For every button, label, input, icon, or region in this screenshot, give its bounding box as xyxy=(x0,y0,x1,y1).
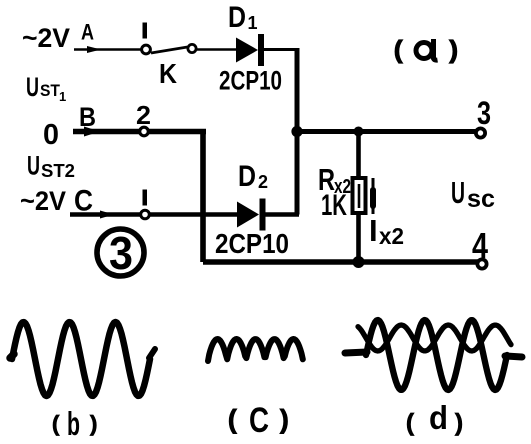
waveform d small wave xyxy=(358,325,511,351)
resistor inner wire mark xyxy=(358,184,361,208)
wire A row from source to switch xyxy=(74,48,141,51)
svg-text:U: U xyxy=(27,151,40,181)
arrow on wire C xyxy=(100,211,114,219)
svg-text:d: d xyxy=(429,399,448,436)
diode D2 triangle xyxy=(237,202,259,228)
wire resistor top lead xyxy=(356,132,361,180)
svg-text:C: C xyxy=(249,401,269,440)
svg-text:ST2: ST2 xyxy=(41,161,75,181)
switch K blade xyxy=(151,47,188,53)
arrow on wire B xyxy=(84,127,100,137)
switch K left contact circle xyxy=(142,45,151,54)
svg-text:3: 3 xyxy=(109,227,133,279)
svg-text:2CP10: 2CP10 xyxy=(215,228,289,259)
wire D1 cathode to corner xyxy=(264,48,297,51)
waveform b end tick xyxy=(149,349,155,358)
pin 1 tick above C node xyxy=(143,190,148,206)
diode D2 cathode bar xyxy=(260,199,266,231)
waveform c rectified humps xyxy=(208,339,303,361)
wire resistor bottom lead xyxy=(356,213,361,262)
svg-text:~2V: ~2V xyxy=(22,23,70,53)
svg-text:): ) xyxy=(90,411,97,436)
junction dot D1-output on rail 3 xyxy=(291,126,302,137)
junction dot resistor top xyxy=(354,127,364,137)
svg-text:U: U xyxy=(26,72,39,102)
junction dot resistor bottom xyxy=(353,256,365,268)
wire B row xyxy=(73,129,206,135)
figure number circled 3 xyxy=(97,229,144,276)
current Ix2 direction line xyxy=(372,178,375,214)
diode D1 cathode bar xyxy=(258,34,264,66)
svg-text:A: A xyxy=(81,20,94,45)
wire switch to diode D1 xyxy=(197,48,236,51)
terminal 4 circle xyxy=(477,259,486,268)
svg-text:x2: x2 xyxy=(379,223,404,249)
node 2 circle xyxy=(140,127,149,136)
svg-text:3: 3 xyxy=(477,95,491,131)
waveform d lead-in xyxy=(345,352,367,353)
label (a) letter a stem xyxy=(434,39,438,60)
svg-text:(: ( xyxy=(228,404,237,434)
switch K right contact circle xyxy=(188,44,196,52)
label (a) letter a bowl xyxy=(416,43,432,59)
svg-text:0: 0 xyxy=(43,119,59,151)
svg-text:): ) xyxy=(280,404,289,434)
svg-text:U: U xyxy=(451,175,465,210)
waveform b start blob xyxy=(10,354,14,358)
svg-text:b: b xyxy=(67,405,80,442)
waveform d big wave xyxy=(366,320,507,390)
current Ix2 arrowhead xyxy=(370,190,376,206)
wire D2 cathode to vertical xyxy=(266,212,300,216)
svg-text:(: ( xyxy=(406,410,414,437)
wire vertical from B down to bottom rail xyxy=(200,129,206,262)
svg-text:B: B xyxy=(79,102,96,132)
wire C row to diode D2 xyxy=(70,212,237,216)
svg-text:1: 1 xyxy=(248,13,258,33)
arrow on wire A xyxy=(87,46,101,53)
pin 1 tick above switch contact xyxy=(143,23,148,39)
bottom rail wire to terminal 4 xyxy=(203,259,479,265)
node 1 circle on C row xyxy=(141,210,150,219)
waveform d lead-out xyxy=(505,356,522,357)
svg-text:4: 4 xyxy=(472,225,488,266)
diode D1 triangle xyxy=(236,38,258,63)
svg-text:~2V: ~2V xyxy=(20,186,66,216)
waveform b sine xyxy=(12,322,150,396)
svg-text:2: 2 xyxy=(136,100,151,130)
svg-text:1: 1 xyxy=(59,89,66,104)
svg-text:I: I xyxy=(369,213,378,248)
wire rail to terminal 3 xyxy=(297,129,477,134)
svg-text:sc: sc xyxy=(467,185,495,213)
svg-text:(: ( xyxy=(394,36,403,64)
terminal 3 circle xyxy=(476,128,485,137)
svg-text:D: D xyxy=(228,1,246,34)
svg-text:K: K xyxy=(159,58,177,89)
svg-text:1K: 1K xyxy=(321,189,347,222)
resistor RX2 body xyxy=(353,178,366,213)
wire vertical from D1 corner down to D2 output xyxy=(295,48,300,215)
svg-text:): ) xyxy=(450,36,458,64)
svg-text:2: 2 xyxy=(258,172,268,192)
svg-text:2CP10: 2CP10 xyxy=(219,66,282,96)
svg-text:): ) xyxy=(455,410,463,437)
svg-text:ST: ST xyxy=(40,81,61,100)
svg-text:(: ( xyxy=(52,411,60,436)
svg-text:D: D xyxy=(238,160,256,193)
